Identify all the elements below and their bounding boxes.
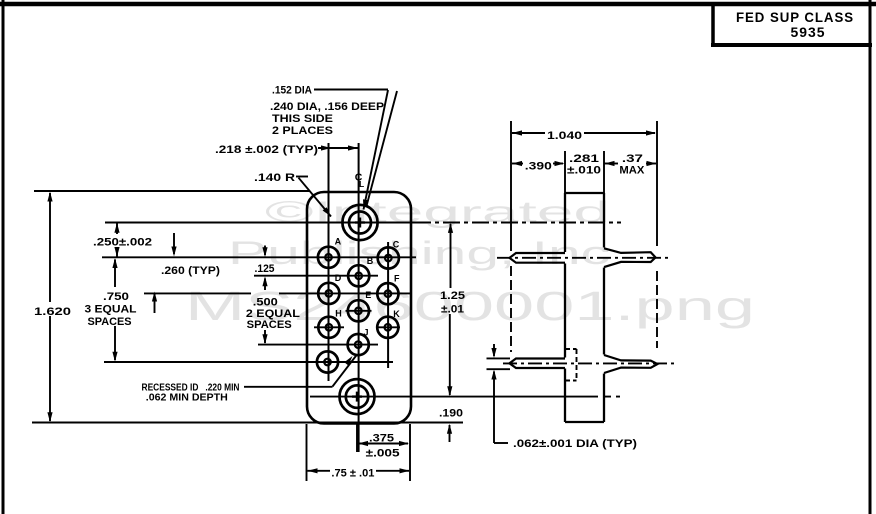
svg-text:5935: 5935 bbox=[791, 24, 826, 40]
svg-text:±.01: ±.01 bbox=[441, 304, 464, 316]
svg-text:FED SUP CLASS: FED SUP CLASS bbox=[736, 9, 854, 25]
svg-text:1.25: 1.25 bbox=[440, 290, 465, 302]
svg-text:.062 MIN DEPTH: .062 MIN DEPTH bbox=[146, 392, 228, 404]
svg-text:K: K bbox=[393, 309, 400, 319]
svg-text:SPACES: SPACES bbox=[247, 319, 292, 331]
svg-text:THIS SIDE: THIS SIDE bbox=[272, 113, 333, 125]
svg-text:A: A bbox=[335, 236, 342, 246]
svg-text:1.040: 1.040 bbox=[547, 130, 582, 142]
svg-text:H: H bbox=[335, 308, 342, 318]
svg-text:±.005: ±.005 bbox=[366, 448, 400, 460]
svg-text:.240 DIA, .156 DEEP: .240 DIA, .156 DEEP bbox=[270, 101, 384, 113]
svg-text:SPACES: SPACES bbox=[88, 316, 132, 328]
svg-text:.152 DIA: .152 DIA bbox=[272, 85, 312, 97]
svg-text:.75 ± .01: .75 ± .01 bbox=[331, 468, 374, 480]
svg-text:.750: .750 bbox=[103, 291, 129, 303]
svg-text:2 PLACES: 2 PLACES bbox=[272, 125, 333, 137]
svg-text:3 EQUAL: 3 EQUAL bbox=[85, 304, 137, 316]
svg-text:.281: .281 bbox=[569, 153, 599, 165]
svg-text:C: C bbox=[393, 239, 400, 249]
svg-text:.190: .190 bbox=[439, 408, 463, 420]
svg-text:1.620: 1.620 bbox=[34, 306, 71, 318]
svg-text:E: E bbox=[365, 290, 371, 300]
svg-text:.125: .125 bbox=[255, 263, 275, 275]
svg-text:MAX: MAX bbox=[619, 165, 645, 177]
svg-text:.062±.001 DIA (TYP): .062±.001 DIA (TYP) bbox=[513, 438, 637, 450]
svg-text:.500: .500 bbox=[253, 297, 278, 309]
svg-text:L: L bbox=[359, 179, 364, 189]
svg-text:.140 R: .140 R bbox=[254, 172, 295, 184]
svg-text:D: D bbox=[335, 273, 342, 283]
svg-text:.260 (TYP): .260 (TYP) bbox=[161, 265, 220, 277]
svg-text:±.010: ±.010 bbox=[567, 165, 601, 177]
svg-text:.375: .375 bbox=[369, 432, 394, 444]
svg-text:.390: .390 bbox=[525, 161, 552, 173]
svg-text:.250±.002: .250±.002 bbox=[93, 237, 152, 249]
svg-text:.218 ±.002 (TYP): .218 ±.002 (TYP) bbox=[215, 144, 318, 156]
svg-text:.37: .37 bbox=[622, 153, 643, 165]
svg-text:J: J bbox=[364, 328, 369, 338]
svg-text:F: F bbox=[394, 274, 400, 284]
